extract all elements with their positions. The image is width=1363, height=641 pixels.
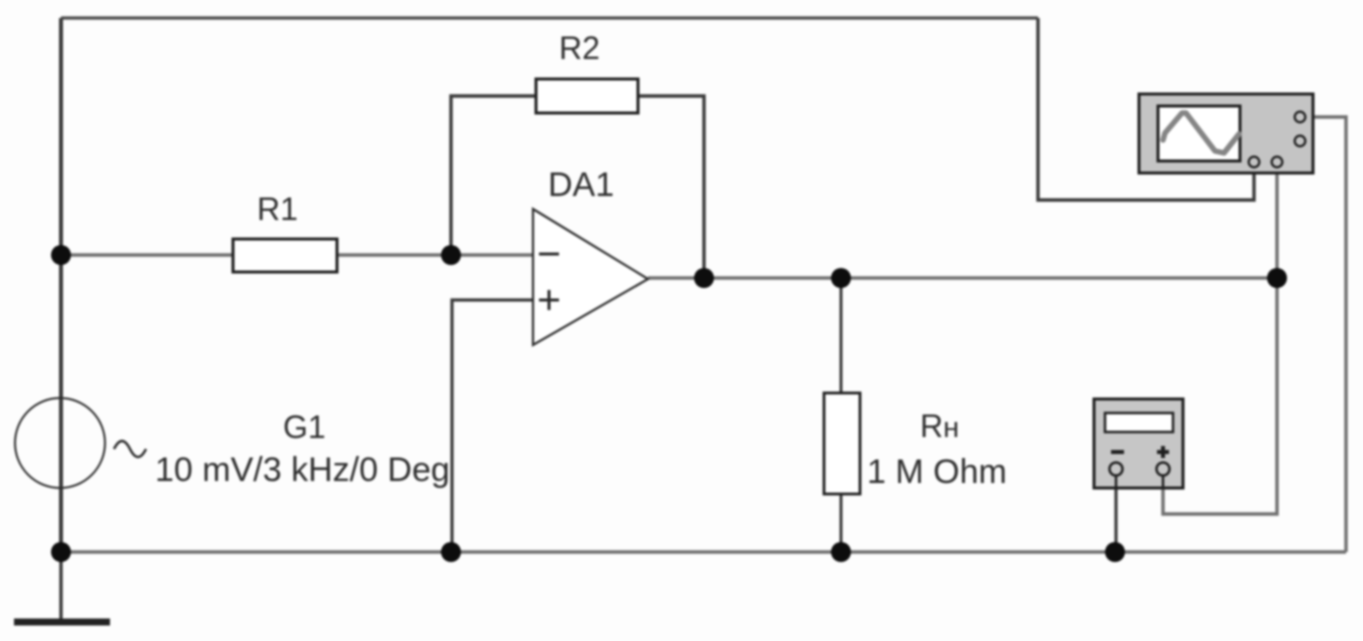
- resistor RH load: [824, 393, 860, 494]
- oscilloscope: [1139, 94, 1313, 173]
- node ground middle junction: [441, 542, 461, 562]
- wire multimeter minus terminal to ground bus: [1114, 486, 1117, 552]
- node ground left junction: [51, 542, 71, 562]
- wire input node to R1: [61, 253, 233, 256]
- label G1: [283, 409, 326, 445]
- ground symbol: [14, 552, 110, 622]
- label R1: [257, 191, 298, 227]
- wire top bus from source node to scope branch: [61, 16, 1038, 19]
- node input junction: [51, 245, 71, 265]
- label R2: [559, 30, 600, 66]
- label DA1: [548, 166, 614, 204]
- wire oscilloscope top-right terminal to bottom bus: [1303, 117, 1346, 552]
- wire left vertical rail: [59, 18, 63, 552]
- node ground RH junction: [831, 542, 851, 562]
- resistor R1: [233, 239, 337, 272]
- wire load resistor bottom lead: [840, 494, 843, 552]
- wire scope branch down-right-up to oscilloscope bottom-left terminal: [1038, 18, 1254, 200]
- svg-text:R1: R1: [257, 191, 298, 227]
- svg-text:R2: R2: [559, 30, 600, 66]
- wire oscilloscope bottom-right terminal down to multimeter plus terminal: [1163, 168, 1277, 514]
- svg-text:10 mV/3 kHz/0 Deg: 10 mV/3 kHz/0 Deg: [155, 451, 450, 489]
- svg-text:1 M Ohm: 1 M Ohm: [867, 453, 1007, 491]
- label RH: [920, 408, 959, 444]
- node output right junction: [1267, 268, 1287, 288]
- label G1 value "10 mV/3 kHz/0 Deg": [155, 451, 450, 489]
- svg-text:DA1: DA1: [548, 166, 614, 204]
- node output R2 junction: [694, 268, 714, 288]
- wire load resistor top lead: [840, 278, 843, 393]
- wire non-inverting input: left and down to ground bus: [452, 300, 533, 552]
- AC source G1: [15, 398, 146, 488]
- wire R1 to inverting input node: [337, 253, 533, 256]
- node inverting input junction: [441, 245, 461, 265]
- resistor R2: [536, 79, 638, 113]
- wire bottom ground bus: [61, 550, 1346, 553]
- node ground multimeter junction: [1105, 542, 1125, 562]
- multimeter: [1094, 399, 1183, 488]
- label RH value "1 M Ohm": [867, 453, 1007, 491]
- svg-text:Rн: Rн: [920, 408, 959, 444]
- wire output row from op-amp to right vertical: [648, 276, 1277, 279]
- svg-text:G1: G1: [283, 409, 326, 445]
- op-amp DA1: [533, 209, 648, 345]
- wire feedback loop right: R2 across and down to output node: [638, 96, 704, 278]
- wire feedback loop left: node up and across to R2: [451, 96, 536, 255]
- node output RH junction: [831, 268, 851, 288]
